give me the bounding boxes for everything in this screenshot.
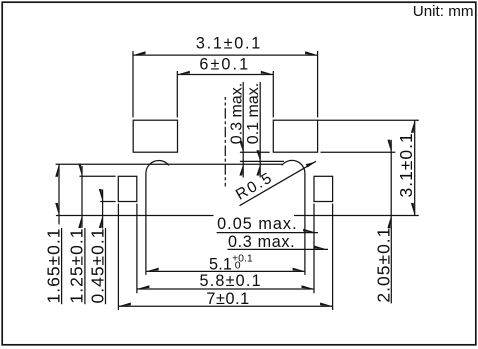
- svg-text:5.1: 5.1: [209, 255, 232, 273]
- svg-text:3.1±0.1: 3.1±0.1: [196, 35, 262, 53]
- svg-text:3.1±0.1: 3.1±0.1: [396, 132, 416, 197]
- svg-text:0.05 max.: 0.05 max.: [217, 215, 298, 233]
- svg-text:2.05±0.1: 2.05±0.1: [373, 227, 393, 303]
- svg-text:0: 0: [235, 260, 241, 272]
- svg-text:R0.5: R0.5: [233, 169, 276, 204]
- svg-text:Unit: mm: Unit: mm: [413, 3, 474, 20]
- svg-text:0.3 max.: 0.3 max.: [229, 83, 246, 144]
- svg-text:1.25±0.1: 1.25±0.1: [67, 228, 87, 304]
- svg-text:7±0.1: 7±0.1: [206, 290, 249, 308]
- svg-text:1.65±0.1: 1.65±0.1: [43, 228, 63, 304]
- svg-text:0.3 max.: 0.3 max.: [228, 233, 295, 251]
- svg-text:0.45±0.1: 0.45±0.1: [87, 228, 107, 304]
- svg-text:6±0.1: 6±0.1: [199, 56, 250, 74]
- svg-text:0.1 max.: 0.1 max.: [245, 83, 262, 144]
- svg-text:5.8±0.1: 5.8±0.1: [200, 272, 262, 290]
